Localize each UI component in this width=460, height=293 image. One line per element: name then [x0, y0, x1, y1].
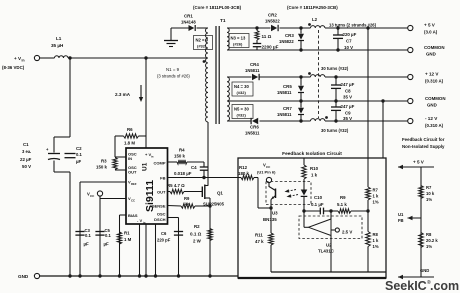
svg-text:13 turns (2 strands #26): 13 turns (2 strands #26): [329, 23, 377, 28]
wire box gnd bus: [271, 271, 386, 273]
node dot CR3 bottom: [299, 48, 302, 51]
svg-text:220 µF: 220 µF: [343, 32, 357, 37]
node dot C9 bottom: [334, 119, 337, 122]
svg-text:R9: R9: [184, 196, 190, 201]
winding N2: [206, 28, 208, 58]
svg-text:CR3: CR3: [285, 33, 294, 38]
resistor R7: [366, 158, 379, 211]
svg-text:C7: C7: [346, 39, 352, 44]
wire emitter to R11: [270, 208, 272, 233]
svg-text:+ 5 V: + 5 V: [413, 160, 425, 165]
optocoupler U3 box: [263, 182, 311, 223]
svg-text:N4 = 30: N4 = 30: [234, 84, 249, 89]
svg-text:2200 µF: 2200 µF: [262, 45, 279, 50]
wire ground rail: [40, 275, 238, 277]
svg-text:CR1: CR1: [184, 14, 193, 19]
label feedback isolation: [282, 151, 342, 157]
wire +5V top rail: [227, 27, 407, 29]
svg-text:COMMON: COMMON: [424, 45, 445, 50]
svg-text:(0.310 A): (0.310 A): [425, 79, 444, 84]
node dot ref: [329, 209, 332, 212]
capacitor C5: [95, 228, 111, 247]
wire R12 to emitter: [258, 178, 271, 209]
opto arrows: [285, 189, 299, 197]
svg-text:N1 = 9: N1 = 9: [166, 67, 180, 72]
node junction Vcc feed: [144, 56, 147, 59]
wire Vcc to collector: [268, 183, 270, 188]
terminal common gnd 2: [408, 96, 446, 108]
wire +5V sense drop: [367, 28, 369, 158]
inductor choke -12V 30 turns: [311, 119, 349, 133]
svg-text:0.1: 0.1: [105, 233, 111, 238]
terminal -12V: [408, 116, 444, 128]
label 2.3 mA: [115, 92, 131, 97]
wire ref bus: [304, 210, 320, 212]
resistor R5: [167, 183, 202, 194]
wire N1 to drain: [207, 122, 209, 186]
svg-text:1N5811: 1N5811: [277, 112, 292, 117]
wire R6 to OSC: [114, 136, 116, 157]
svg-text:R12: R12: [239, 165, 248, 170]
node dot C8 top: [334, 75, 337, 78]
label U1 Si9111: [142, 162, 157, 212]
svg-text:R6: R6: [127, 127, 133, 132]
svg-text:TL431C: TL431C: [318, 249, 335, 254]
label N2 boxed: [194, 36, 213, 50]
wire U1 FB tap: [398, 212, 421, 223]
svg-text:R7: R7: [426, 185, 432, 190]
svg-text:CC: CC: [90, 194, 95, 198]
svg-text:CR5: CR5: [283, 84, 292, 89]
wire ref to U2: [330, 211, 332, 219]
resistor R1: [117, 231, 131, 245]
winding N5: [227, 101, 230, 121]
svg-text:1 k: 1 k: [373, 194, 379, 199]
watermark: [385, 279, 459, 293]
svg-text:OUT: OUT: [128, 170, 137, 175]
capacitor C4: [174, 162, 208, 178]
svg-text:+ 5 V: + 5 V: [424, 23, 436, 28]
wire SENSE: [168, 196, 211, 208]
winding N3: [227, 28, 229, 50]
svg-text:U3: U3: [272, 211, 278, 216]
svg-text:R5 4.7 Ω: R5 4.7 Ω: [167, 183, 185, 188]
svg-text:in: in: [151, 154, 154, 158]
wire coupling dashed: [318, 30, 320, 118]
node phase dot N1: [203, 60, 206, 63]
svg-text:1 k: 1 k: [311, 173, 318, 178]
capacitor C2: [65, 146, 83, 164]
svg-text:in: in: [143, 220, 146, 224]
svg-text:1N5811: 1N5811: [245, 68, 260, 73]
svg-text:GND: GND: [426, 52, 436, 57]
svg-text:35 V: 35 V: [343, 116, 352, 121]
svg-text:Si9111: Si9111: [144, 180, 156, 212]
svg-text:R2: R2: [194, 224, 200, 229]
resistor R8: [366, 211, 379, 272]
terminal common gnd 1: [408, 45, 445, 57]
svg-text:1 M: 1 M: [124, 237, 132, 242]
svg-text:30 turns (#32): 30 turns (#32): [321, 66, 349, 71]
svg-text:(#32): (#32): [237, 113, 247, 118]
capacitor C6: [157, 231, 183, 243]
transistor Q1: [202, 185, 224, 207]
svg-text:R10: R10: [310, 166, 319, 171]
svg-text:11 Ω: 11 Ω: [262, 34, 272, 39]
svg-text:Non-Isolated Supply: Non-Isolated Supply: [402, 144, 445, 149]
terminal +Vin: [2, 55, 40, 70]
wire +12V rail: [227, 76, 407, 78]
svg-text:C10: C10: [314, 195, 323, 200]
svg-text:R8: R8: [426, 232, 432, 237]
wire FB: [168, 177, 239, 179]
svg-text:FB: FB: [398, 218, 404, 223]
svg-text:C4: C4: [191, 165, 197, 170]
wire U2 anode: [330, 236, 332, 273]
svg-text:1N5822: 1N5822: [279, 39, 294, 44]
resistor R8 nonisolated: [419, 232, 439, 249]
terminal 2.5V ref: [331, 228, 352, 235]
label U1 pins left: [128, 152, 138, 219]
arrow current 2.3mA: [139, 85, 143, 102]
svg-text:10 k: 10 k: [426, 191, 435, 196]
svg-text:CR7: CR7: [283, 106, 292, 111]
node phase dot choke-12: [325, 116, 328, 119]
svg-text:COMP: COMP: [154, 161, 166, 166]
svg-text:OSC: OSC: [157, 212, 166, 217]
wire Vcc feed: [145, 58, 147, 148]
label N1: [157, 67, 190, 79]
resistor R12: [238, 165, 258, 180]
svg-text:T1: T1: [220, 18, 226, 24]
svg-text:C1: C1: [23, 142, 29, 147]
svg-text:.com: .com: [430, 279, 459, 293]
svg-text:+ 12 V: + 12 V: [425, 72, 439, 77]
transformer T1 label: [220, 18, 226, 24]
svg-text:(8-36 VDC): (8-36 VDC): [2, 65, 25, 70]
svg-text:220 pF: 220 pF: [157, 238, 171, 243]
op-amp U2 TL431 box: [299, 216, 362, 254]
label U1 pins right: [137, 152, 166, 224]
svg-text:0.1 µF: 0.1 µF: [311, 202, 324, 207]
svg-text:(3.0 A): (3.0 A): [424, 30, 438, 35]
node dot C7 bottom: [336, 48, 339, 51]
svg-text:(3 strands of #26): (3 strands of #26): [157, 74, 190, 79]
capacitor C7: [333, 28, 357, 50]
wire U2 cathode: [303, 211, 305, 227]
svg-text:- V: - V: [137, 218, 142, 223]
svg-text:REF: REF: [131, 182, 137, 186]
resistor snubber 11ohm: [255, 28, 272, 40]
svg-text:150 k: 150 k: [96, 165, 108, 170]
svg-text:22 µF: 22 µF: [20, 157, 32, 162]
wire -Vin pins to gnd: [140, 224, 156, 276]
resistor R4: [168, 148, 205, 165]
transformer core: [216, 26, 219, 124]
svg-text:(#26): (#26): [233, 42, 243, 47]
wire GND tap: [398, 268, 434, 279]
svg-text:(Core # 1811PL00-3CB): (Core # 1811PL00-3CB): [193, 5, 242, 10]
diode CR4: [245, 62, 260, 80]
svg-text:Feedback Isolation Circuit: Feedback Isolation Circuit: [282, 151, 342, 157]
node phase dot L2: [308, 23, 311, 26]
winding N4: [227, 77, 229, 101]
svg-text:CR4: CR4: [250, 62, 259, 67]
wire OSC IN: [115, 156, 126, 158]
svg-text:10 V: 10 V: [344, 45, 353, 50]
svg-text:FB: FB: [160, 176, 165, 181]
svg-text:2.5 V: 2.5 V: [342, 230, 352, 235]
terminal GND: [18, 273, 40, 279]
svg-text:CC: CC: [266, 165, 271, 169]
svg-text:35 V: 35 V: [343, 95, 352, 100]
node dot gnd drop: [381, 99, 384, 102]
wire Q1 source: [209, 198, 211, 276]
diode CR3: [279, 28, 304, 50]
svg-text:L2: L2: [312, 17, 318, 22]
label N5 boxed: [232, 105, 253, 119]
node dot sense: [208, 204, 211, 207]
inductor choke +12V 30 turns: [311, 66, 349, 77]
svg-text:1N5811: 1N5811: [277, 90, 292, 95]
svg-text:0.1 Ω: 0.1 Ω: [190, 232, 202, 237]
wire CR1: [171, 28, 208, 40]
inductor L2: [311, 17, 377, 28]
node dot LED bottom: [302, 209, 305, 212]
resistor R6: [115, 127, 146, 146]
svg-text:R8: R8: [373, 232, 379, 237]
svg-text:2.3 mA: 2.3 mA: [115, 92, 131, 97]
node dot CR7 bottom: [299, 119, 302, 122]
label N3 boxed: [229, 34, 249, 48]
svg-text:GND: GND: [420, 268, 429, 273]
diode CR6: [245, 118, 260, 136]
svg-text:1%: 1%: [373, 244, 379, 249]
svg-text:U1: U1: [142, 162, 149, 171]
svg-text:(U1 Pin 6): (U1 Pin 6): [257, 170, 276, 175]
svg-text:2 W: 2 W: [193, 239, 202, 244]
diode CR7: [277, 101, 304, 121]
wire -12V rail: [227, 120, 407, 122]
feedback box: [238, 158, 386, 278]
node dot CR5 top: [299, 75, 302, 78]
svg-text:COMMON: COMMON: [425, 96, 446, 101]
svg-text:(Core # 1811PA250-3CB): (Core # 1811PA250-3CB): [287, 5, 338, 10]
svg-text:1N5811: 1N5811: [245, 131, 260, 136]
node junction C1: [68, 56, 71, 59]
node dot C8 bottom: [334, 99, 337, 102]
svg-text:GND: GND: [427, 103, 437, 108]
svg-text:C9: C9: [345, 111, 351, 116]
svg-text:C6: C6: [161, 231, 167, 236]
wire +5V return rail: [227, 49, 407, 51]
svg-text:247 µF: 247 µF: [341, 104, 355, 109]
svg-text:R4: R4: [179, 148, 185, 153]
svg-text:U1: U1: [398, 212, 404, 217]
svg-text:5.1 k: 5.1 k: [337, 202, 347, 207]
svg-text:47 k: 47 k: [255, 239, 264, 244]
diode CR2: [265, 13, 280, 32]
svg-text:3 ea.: 3 ea.: [22, 149, 31, 154]
resistor R11: [255, 233, 273, 273]
resistor R10: [302, 158, 319, 184]
svg-text:1%: 1%: [373, 200, 379, 205]
node dot snubber top: [255, 26, 258, 29]
inductor L1: [51, 36, 68, 58]
capacitor snubber 2200uF: [253, 40, 279, 50]
svg-text:Feedback Circuit for: Feedback Circuit for: [402, 137, 445, 142]
svg-text:1 k: 1 k: [184, 202, 190, 206]
svg-text:- 12 V: - 12 V: [425, 116, 438, 121]
svg-text:(#32): (#32): [197, 44, 207, 49]
terminal Vcc U1pin6: [257, 163, 276, 183]
wire gnd sense drop: [382, 101, 384, 158]
svg-text:150 k: 150 k: [174, 154, 186, 159]
wire +5V tap: [398, 160, 434, 170]
svg-text:Q1: Q1: [217, 191, 223, 196]
svg-text:50 V: 50 V: [22, 164, 31, 169]
transistor opto phototransistor: [269, 187, 276, 209]
svg-text:R1: R1: [124, 231, 130, 236]
resistor R9b: [337, 195, 368, 213]
svg-text:BN135: BN135: [263, 217, 277, 222]
label core T1 right: [287, 5, 338, 10]
terminal +12V: [408, 72, 444, 84]
node dot sense drop: [366, 26, 369, 29]
node dot C4 FB: [202, 176, 205, 179]
svg-text:N2 = 9: N2 = 9: [196, 38, 209, 43]
capacitor C1: [20, 142, 60, 169]
svg-text:20.2 k: 20.2 k: [426, 238, 438, 243]
svg-text:R3: R3: [101, 159, 107, 164]
svg-text:0.1: 0.1: [85, 233, 91, 238]
capacitor C10: [311, 195, 338, 214]
svg-text:in: in: [22, 59, 25, 63]
op-amp U2 triangle: [304, 219, 331, 236]
node dot CR3 top: [299, 26, 302, 29]
svg-text:180 k: 180 k: [238, 171, 250, 176]
svg-text:(0.310 A): (0.310 A): [425, 123, 444, 128]
svg-text:+: +: [46, 147, 49, 152]
svg-text:1 k: 1 k: [373, 238, 379, 243]
label N4 boxed: [232, 82, 253, 96]
diode CR5: [277, 77, 304, 101]
wire VREF: [80, 182, 126, 276]
svg-text:µF: µF: [104, 242, 110, 247]
wire Vcc line: [100, 196, 126, 276]
svg-text:R11: R11: [255, 233, 263, 238]
svg-text:µF: µF: [76, 159, 82, 164]
svg-text:(#32): (#32): [237, 90, 247, 95]
resistor R7 nonisolated: [419, 185, 435, 202]
winding N1: [206, 58, 208, 122]
svg-text:C8: C8: [345, 89, 351, 94]
svg-text:SeekIC: SeekIC: [385, 279, 427, 293]
node dot C7 top: [336, 26, 339, 29]
svg-text:CR2: CR2: [268, 13, 277, 18]
svg-text:30 turns (#32): 30 turns (#32): [321, 128, 349, 133]
svg-text:IN: IN: [128, 156, 132, 161]
svg-text:GND: GND: [18, 274, 29, 279]
resistor R2: [190, 224, 212, 244]
op-amp U1 Si9111 box: [126, 148, 168, 224]
terminal Vcc aux: [87, 191, 103, 198]
ground: [164, 41, 178, 47]
svg-text:C2: C2: [76, 146, 82, 151]
wire C1 branch: [54, 137, 70, 172]
svg-text:0.018 µF: 0.018 µF: [174, 171, 192, 176]
diode opto LED: [301, 184, 308, 211]
label feedback circuit for: [402, 137, 445, 149]
wire OSC DSCH: [168, 218, 179, 277]
svg-text:247 µF: 247 µF: [341, 82, 355, 87]
wire common gnd rail 2: [227, 100, 407, 102]
wire left vertical: [69, 58, 71, 276]
svg-text:35 µH: 35 µH: [51, 43, 64, 48]
wire OSC OUT: [115, 169, 126, 171]
capacitor C9: [331, 101, 355, 121]
node dot divider: [366, 209, 369, 212]
svg-text:1%: 1%: [426, 197, 432, 202]
wire +Vin rail: [40, 57, 208, 59]
terminal +5V: [408, 23, 438, 35]
svg-text:R9: R9: [340, 195, 346, 200]
svg-text:1N5822: 1N5822: [265, 19, 280, 24]
svg-text:1%: 1%: [426, 244, 432, 249]
diode CR1: [181, 14, 196, 32]
node dot CR5 bottom: [299, 99, 302, 102]
svg-text:CC: CC: [131, 198, 135, 202]
svg-text:DSCH: DSCH: [154, 217, 165, 222]
svg-text:0.1: 0.1: [76, 152, 82, 157]
capacitor C8: [331, 77, 355, 101]
svg-text:µF: µF: [84, 242, 90, 247]
wire BIAS: [120, 215, 127, 276]
capacitor C3: [75, 228, 91, 247]
resistor R3: [96, 158, 117, 170]
node phase dot choke+12: [308, 72, 311, 75]
svg-text:OUT: OUT: [157, 190, 166, 195]
svg-text:CR6: CR6: [250, 125, 259, 130]
svg-text:1N4148: 1N4148: [181, 20, 196, 25]
svg-text:L1: L1: [56, 36, 62, 41]
svg-text:N3 = 13: N3 = 13: [231, 36, 246, 41]
svg-text:N5 = 30: N5 = 30: [234, 107, 249, 112]
svg-text:R7: R7: [373, 188, 379, 193]
label core T1 left: [193, 5, 242, 10]
node gnd dots: [68, 274, 211, 277]
svg-text:1.8 M: 1.8 M: [124, 141, 135, 146]
wire box bottom thick: [238, 277, 386, 279]
wire divider vertical: [420, 167, 422, 277]
node dot emitter: [269, 206, 272, 209]
